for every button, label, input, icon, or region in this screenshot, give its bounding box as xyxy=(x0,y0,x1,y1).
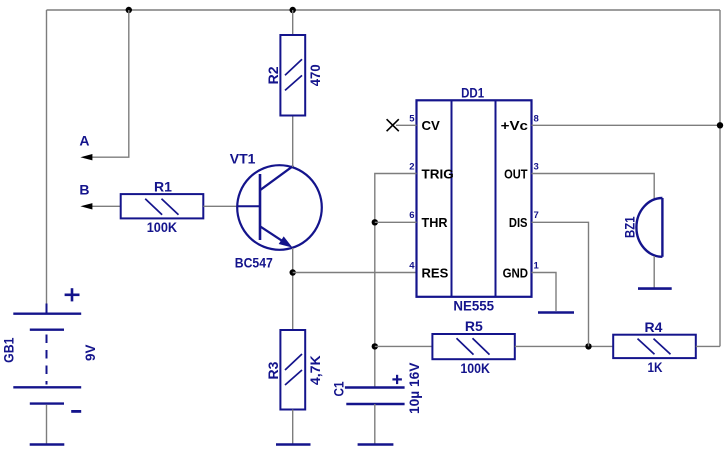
wire left rail xyxy=(46,10,48,305)
buzzer BZ1 xyxy=(622,198,663,257)
svg-text:R1: R1 xyxy=(154,178,172,194)
svg-text:TRIG: TRIG xyxy=(422,166,454,181)
wire right rail xyxy=(719,10,721,346)
node junction top R2 xyxy=(290,7,296,13)
svg-text:DIS: DIS xyxy=(509,215,528,230)
svg-text:1K: 1K xyxy=(648,359,663,375)
resistor R3 xyxy=(265,330,323,410)
wire TRIG branch down to C1 xyxy=(375,174,417,388)
wire B lead xyxy=(90,205,121,207)
ground GND pin xyxy=(538,311,574,314)
svg-text:R2: R2 xyxy=(265,66,281,84)
node DIS junction xyxy=(585,343,591,349)
svg-text:R4: R4 xyxy=(645,319,663,335)
svg-text:BC547: BC547 xyxy=(235,255,273,271)
wire R1 to base xyxy=(203,205,238,207)
svg-text:BZ1: BZ1 xyxy=(622,216,638,238)
svg-text:DD1: DD1 xyxy=(461,84,484,100)
wire CV lead xyxy=(396,124,417,126)
wire top rail xyxy=(47,9,721,11)
svg-text:VT1: VT1 xyxy=(230,150,256,166)
node THR junction xyxy=(372,219,378,225)
wire GND lead xyxy=(532,273,557,312)
wire DIS branch xyxy=(532,222,589,346)
ground buzzer xyxy=(638,287,672,290)
wire RES lead xyxy=(293,272,417,274)
svg-text:B: B xyxy=(79,181,89,197)
svg-text:OUT: OUT xyxy=(504,166,527,181)
svg-text:5: 5 xyxy=(409,113,415,124)
wire +Vc rail xyxy=(532,124,721,126)
wire A branch xyxy=(90,10,129,157)
svg-text:A: A xyxy=(79,133,89,149)
wire emitter down to R3 xyxy=(292,248,294,330)
svg-text:R5: R5 xyxy=(465,318,483,334)
wire R3 to ground xyxy=(292,410,294,445)
wire R5 left lead xyxy=(375,345,433,347)
svg-text:THR: THR xyxy=(422,215,448,230)
wire buzzer to ground xyxy=(653,256,655,289)
capacitor C1 xyxy=(331,362,423,414)
svg-text:8: 8 xyxy=(534,113,539,124)
ground C1 xyxy=(358,443,394,446)
svg-text:GB1: GB1 xyxy=(1,337,17,362)
svg-text:10µ 16V: 10µ 16V xyxy=(406,362,422,414)
svg-text:CV: CV xyxy=(422,118,441,133)
svg-text:1: 1 xyxy=(534,261,540,272)
svg-text:GND: GND xyxy=(503,265,528,280)
node R5 left junction xyxy=(372,343,378,349)
op-amp U1 IC DD1 box xyxy=(417,84,532,313)
ground battery xyxy=(30,443,65,446)
wire OUT to buzzer xyxy=(532,174,655,200)
svg-text:+Vc: +Vc xyxy=(501,118,528,133)
resistor R2 xyxy=(265,35,323,116)
wire battery to ground xyxy=(46,405,48,445)
resistor R4 xyxy=(613,319,696,375)
wire R4 right lead xyxy=(696,345,720,347)
node A arrow xyxy=(80,154,92,160)
svg-text:4,7K: 4,7K xyxy=(307,355,323,385)
wire R2 to collector xyxy=(292,116,294,168)
svg-text:2: 2 xyxy=(409,162,414,173)
svg-text:4: 4 xyxy=(409,261,415,272)
svg-text:RES: RES xyxy=(422,265,449,280)
svg-text:7: 7 xyxy=(534,210,539,221)
svg-text:100K: 100K xyxy=(460,360,490,376)
svg-text:6: 6 xyxy=(409,210,414,221)
resistor R5 xyxy=(432,318,514,376)
wire R5 to R4 xyxy=(515,345,613,347)
svg-text:470: 470 xyxy=(307,64,323,86)
wire C1 to ground xyxy=(374,404,376,445)
resistor R1 xyxy=(121,178,204,235)
transistor VT1 xyxy=(230,150,322,270)
node emitter junction xyxy=(290,269,296,275)
svg-text:3: 3 xyxy=(534,162,539,173)
svg-text:9V: 9V xyxy=(82,344,98,361)
no-connect X on pin 5 xyxy=(387,119,399,131)
wire R2 top lead xyxy=(292,10,294,35)
node B arrow xyxy=(80,203,92,209)
ground R3 xyxy=(276,443,311,446)
svg-text:C1: C1 xyxy=(331,381,347,396)
svg-text:R3: R3 xyxy=(265,361,281,379)
node +Vc junction xyxy=(717,122,723,128)
battery GB1 xyxy=(1,288,99,411)
wire THR lead xyxy=(375,221,417,223)
svg-text:NE555: NE555 xyxy=(453,297,494,313)
node junction top A-branch xyxy=(126,7,132,13)
svg-text:100K: 100K xyxy=(147,219,177,235)
